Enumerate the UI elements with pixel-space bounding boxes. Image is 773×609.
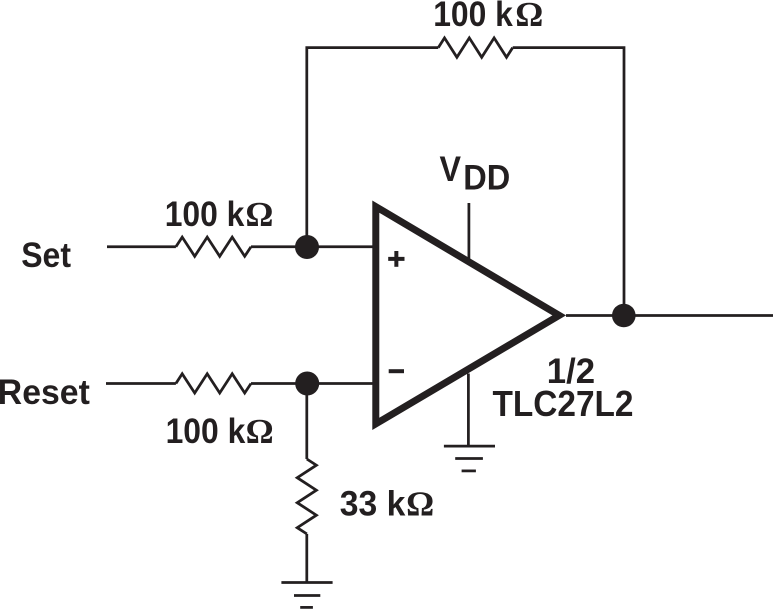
resistor R1 100k (Set) zigzag xyxy=(176,237,251,256)
svg-text:Reset: Reset xyxy=(0,373,90,412)
svg-text:DD: DD xyxy=(463,159,510,198)
wire: feedback left vertical + top horizontal to R2 xyxy=(307,48,439,247)
label: Set resistor value 100 kOhm xyxy=(165,195,274,234)
resistor R3 100k (Reset) zigzag xyxy=(176,374,251,393)
wire: op-amp ground pin xyxy=(467,374,470,447)
op-amp + input symbol xyxy=(388,251,404,267)
svg-text:33 k: 33 k xyxy=(340,484,406,523)
label: Reset resistor value 100 kOhm xyxy=(166,412,274,451)
wire: Reset input to resistor R3 xyxy=(106,382,176,385)
wire: - node down to R4 xyxy=(305,384,308,460)
wire: R1 to + input node xyxy=(251,245,373,248)
label: VDD supply xyxy=(440,150,511,198)
op-amp U1 1/2 TLC27L2 triangle xyxy=(376,207,559,424)
resistor R4 33k zigzag xyxy=(297,459,316,534)
svg-text:100 k: 100 k xyxy=(166,412,246,451)
svg-text:Ω: Ω xyxy=(245,195,273,234)
ground G1 (below R4) xyxy=(281,583,332,608)
svg-text:Ω: Ω xyxy=(246,412,274,451)
node dot: - input junction xyxy=(295,372,319,396)
svg-text:Ω: Ω xyxy=(406,484,434,523)
wire: Set input to resistor R1 xyxy=(107,245,176,248)
node dot: output junction xyxy=(612,304,636,328)
wire: output xyxy=(566,314,773,317)
label: R4 value 33 kOhm xyxy=(340,484,434,523)
ground G2 (op-amp) xyxy=(444,446,495,471)
wire: R4 to ground xyxy=(305,534,308,583)
wire: R3 to - input node xyxy=(251,382,373,385)
wire: R2 to right vertical down to output node xyxy=(513,48,624,316)
op-amp - input symbol xyxy=(389,369,404,373)
node dot: + input junction xyxy=(295,235,319,259)
label: feedback resistor value 100 kOhm xyxy=(433,0,543,34)
wire: VDD pin xyxy=(468,203,471,259)
svg-text:TLC27L2: TLC27L2 xyxy=(493,383,634,424)
svg-text:V: V xyxy=(440,150,462,189)
svg-text:100 k: 100 k xyxy=(433,0,513,34)
svg-text:Ω: Ω xyxy=(515,0,543,34)
svg-text:100 k: 100 k xyxy=(165,195,245,234)
svg-text:Set: Set xyxy=(21,236,71,275)
resistor R2 100k (feedback) zigzag xyxy=(438,38,512,57)
